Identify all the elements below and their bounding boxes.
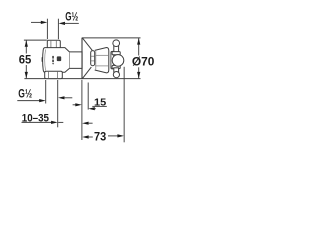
escutcheon cone bottom silhouette: [82, 67, 91, 79]
svg-text:G½: G½: [65, 10, 78, 24]
dimension G1/2 top: left extension line: [46, 19, 48, 40]
dimension G1/2 top: right arrowhead: [59, 22, 66, 25]
dimension 73: right arrowhead: [117, 134, 124, 137]
dimension 15: left arrowhead: [75, 103, 82, 106]
valve body group: [42, 40, 82, 78]
dimension 73: left tail: [88, 136, 93, 138]
dimension dia70: up arrowhead: [137, 38, 140, 45]
bead mid line: [91, 55, 95, 57]
svg-text:Ø70: Ø70: [132, 55, 155, 69]
bottom union nut (G1/2 thread): [45, 71, 63, 78]
bottom shared extension line: [24, 78, 140, 80]
dimension G1/2 bottom: arrow tail: [64, 97, 72, 99]
dimension 10-35: right arrow tail: [88, 122, 93, 124]
dimension 65: up arrowhead: [25, 40, 28, 47]
svg-text:73: 73: [94, 131, 106, 143]
dimension dia70: down arrowhead: [137, 72, 140, 79]
dimension G1/2 bottom: leader underline: [17, 100, 40, 102]
top union nut (G1/2 thread): [47, 40, 60, 48]
body inner left contour: [44, 49, 47, 70]
dimension dia70: vertical dim line lower: [138, 67, 140, 78]
bottom nut hex face line right: [57, 72, 59, 79]
dimension 15: right arrowhead: [88, 107, 95, 110]
svg-text:10–35: 10–35: [22, 113, 49, 125]
handle bell skirt: [95, 48, 109, 73]
top nut hex face line left: [50, 41, 52, 48]
dimension dia70: top extension line: [82, 37, 141, 39]
dimension G1/2 bottom: left extension line: [45, 80, 47, 104]
body right face line at neck: [69, 52, 71, 68]
extension line plate front: [87, 83, 89, 110]
dimension 73: right segment: [108, 135, 119, 137]
dimension 10-35: left-pointing arrowhead at wall line: [82, 122, 89, 125]
dimension 15: right arrow tail: [94, 108, 96, 110]
label 65 (with white gap on dim line): [18, 54, 33, 66]
dimension 15: left arrow tail: [73, 104, 77, 106]
bottom ball: [113, 72, 119, 78]
escutcheon back plate edge: [81, 38, 83, 79]
escutcheon front bead: [91, 51, 95, 66]
hub disc: [111, 51, 114, 69]
label dia70: [131, 56, 156, 68]
dimension G1/2 top: dim line right part / underline of label: [65, 22, 79, 24]
top spoke neck: [114, 46, 119, 53]
bottom nut hex face line left: [47, 72, 49, 79]
dimension dia70: vertical dim line upper: [138, 38, 140, 55]
dimension G1/2 top: dim line left part: [31, 21, 42, 23]
bell inner stem bottom line: [95, 65, 108, 67]
dimension 73: right extension line: [123, 67, 125, 143]
dimension 10-35: right-pointing arrowhead: [51, 121, 58, 124]
cross handle group: [112, 40, 124, 78]
dimension 65: vertical dim line upper: [25, 40, 27, 54]
valve body with neck: [43, 48, 83, 73]
extension line wall/plate back (long): [81, 80, 83, 140]
bell inner stem top line: [95, 54, 108, 56]
front knob ball: [112, 55, 124, 67]
svg-text:G½: G½: [18, 86, 32, 100]
svg-text:65: 65: [19, 53, 32, 67]
dimension 10-35: dim line: [22, 121, 53, 123]
dimension G1/2 top: right extension line: [57, 19, 59, 40]
dimension 10-35: overshoot line: [58, 121, 63, 123]
body left boss bump: [41, 58, 44, 62]
dimension 73: left arrowhead: [82, 135, 89, 138]
body emblem (dark logo square): [57, 56, 61, 61]
escutcheon group: [82, 38, 92, 79]
body engraving marks (DR approval text): [52, 56, 54, 65]
top nut hex face line right: [55, 41, 57, 48]
dimension G1/2 top: left arrowhead: [41, 21, 48, 24]
bottom spoke collar: [112, 65, 120, 68]
dimension G1/2 bottom: right-pointing arrowhead: [39, 99, 46, 102]
escutcheon cone top silhouette: [82, 38, 92, 50]
top ball: [113, 40, 120, 47]
bottom spoke neck: [114, 68, 119, 72]
dimension 65: down arrowhead: [25, 72, 28, 79]
dimension 65: vertical dim line lower: [25, 65, 27, 79]
dimension 65: top extension line: [24, 39, 47, 41]
top spoke collar: [112, 52, 120, 55]
extension line pipe axis (10-35): [57, 80, 59, 127]
dimension G1/2 bottom: left-pointing arrowhead at right stub: [58, 96, 65, 99]
svg-text:15: 15: [94, 97, 107, 108]
dimension 15: underline of label: [92, 105, 107, 107]
